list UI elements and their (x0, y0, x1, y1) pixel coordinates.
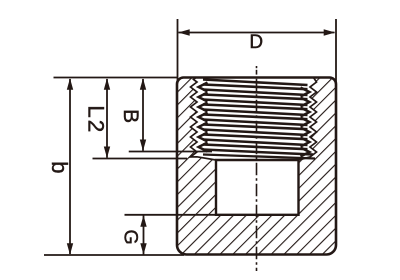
svg-text:D: D (249, 32, 263, 53)
svg-text:B: B (119, 109, 142, 123)
svg-text:G: G (120, 230, 142, 245)
svg-text:L2: L2 (83, 105, 108, 134)
svg-text:b: b (47, 161, 72, 173)
